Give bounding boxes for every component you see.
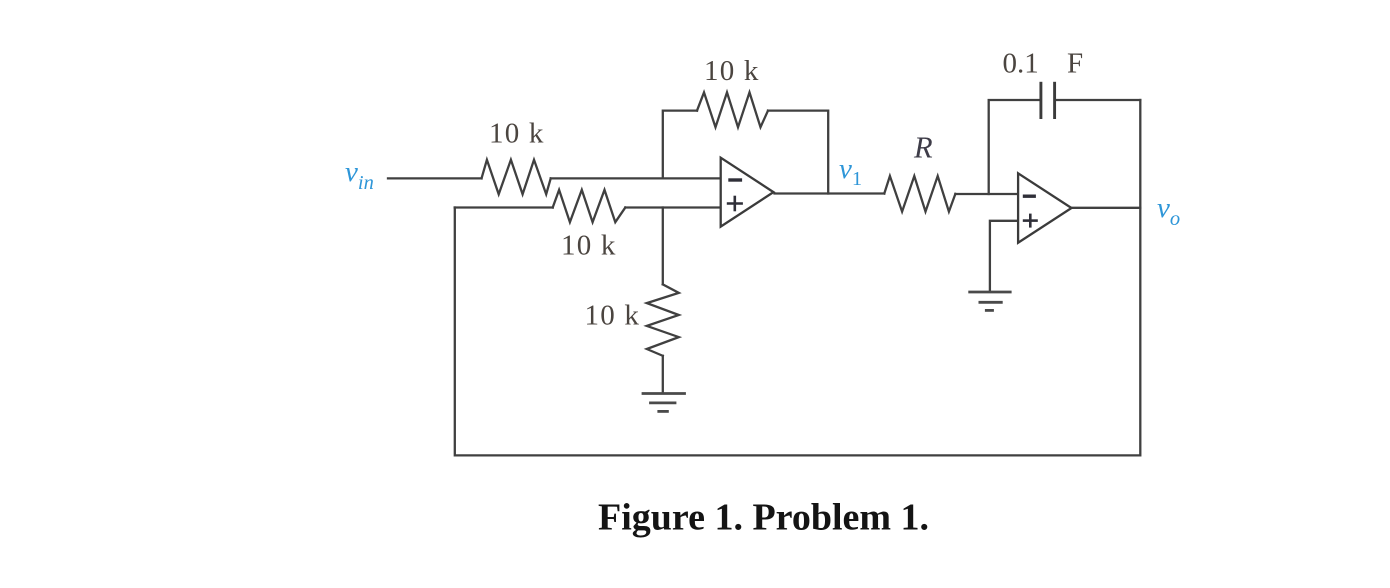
wire R1 to U1 inverting input <box>551 177 721 179</box>
svg-text:10 k: 10 k <box>704 55 760 87</box>
svg-text:v1: v1 <box>839 153 862 190</box>
resistor R (v1 to U2 inverting input) <box>884 176 955 212</box>
resistor R1 10 k (series to inverting input) <box>482 160 551 194</box>
svg-text:10 k: 10 k <box>561 230 617 262</box>
svg-text:vin: vin <box>345 156 374 194</box>
op-amp U2 body <box>1018 173 1071 242</box>
svg-text:F: F <box>1067 48 1083 80</box>
wire feedback corner to R2 (plus-row left segment) <box>455 206 553 208</box>
op-amp U1 plus sign <box>727 196 743 212</box>
op-amp U1 minus sign <box>728 178 742 181</box>
resistor RF1 10 k (U1 feedback) <box>697 92 768 127</box>
svg-text:R: R <box>913 131 933 165</box>
op-amp U2 minus sign <box>1023 194 1036 197</box>
wire U2 output to vo <box>1073 207 1141 209</box>
svg-text:10 k: 10 k <box>585 300 641 332</box>
wire U2 non-inverting input to ground riser <box>990 221 1018 291</box>
wire RF1 to U1 output drop <box>768 111 828 194</box>
wire Vin input lead <box>388 177 482 179</box>
svg-text:Figure 1. Problem 1.: Figure 1. Problem 1. <box>598 497 929 539</box>
svg-text:0.1: 0.1 <box>1003 48 1039 80</box>
op-amp U2 plus sign <box>1023 214 1038 228</box>
wire capacitor feedback left riser <box>989 100 1040 194</box>
wire U1 feedback riser (inverting node up) <box>663 111 697 179</box>
ground 1 (below R3) <box>642 394 686 412</box>
wire outer feedback loop (left drop, bottom run, right riser) <box>455 100 1141 455</box>
resistor R2 10 k (series to non-inverting input) <box>553 190 626 222</box>
ground 2 (below U2 non-inverting input) <box>968 292 1011 310</box>
wire non-inverting node down to R3 <box>662 208 664 285</box>
svg-text:vo: vo <box>1157 192 1180 230</box>
wire R2 to U1 non-inverting input <box>625 206 720 208</box>
wire R3 to ground 1 <box>662 356 664 392</box>
op-amp U1 body <box>721 158 774 227</box>
wire U1 output to node v1 and resistor R <box>775 192 885 194</box>
resistor R3 10 k (to ground) <box>647 284 679 355</box>
capacitor C1 plates <box>1041 82 1055 119</box>
svg-text:10 k: 10 k <box>489 118 545 150</box>
wire capacitor right to output riser <box>1056 99 1140 101</box>
wire R to U2 inverting input <box>955 193 1018 195</box>
